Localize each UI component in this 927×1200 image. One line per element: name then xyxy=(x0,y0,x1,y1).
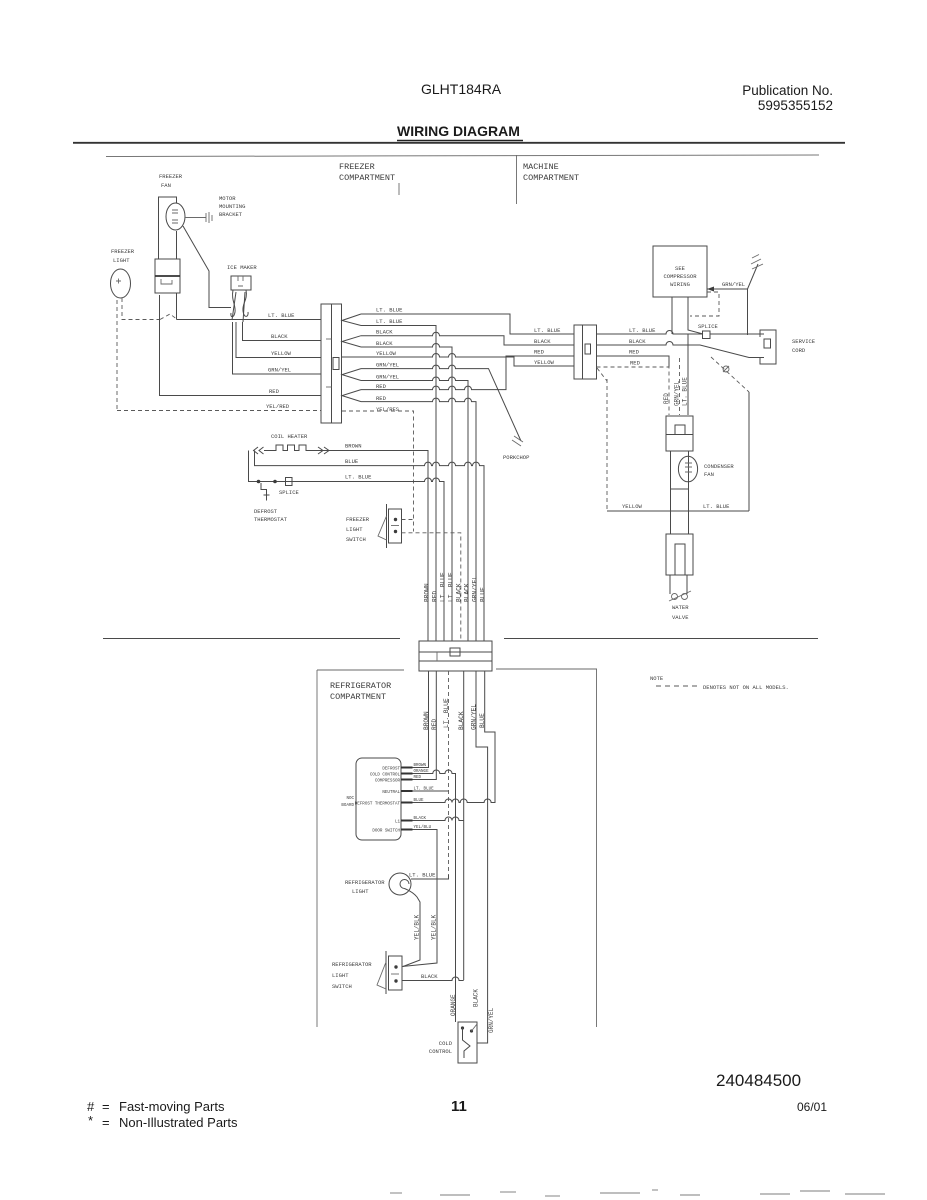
svg-text:BRACKET: BRACKET xyxy=(219,211,243,218)
svg-text:MACHINE: MACHINE xyxy=(523,162,559,172)
svg-text:BLACK: BLACK xyxy=(629,338,646,345)
svg-text:BLACK: BLACK xyxy=(534,338,551,345)
svg-text:COLD CONTROL: COLD CONTROL xyxy=(370,774,401,778)
svg-text:#: # xyxy=(87,1099,95,1114)
svg-text:COLD: COLD xyxy=(439,1040,453,1047)
svg-text:FREEZER: FREEZER xyxy=(111,248,135,255)
svg-text:BLUE: BLUE xyxy=(345,458,359,465)
svg-text:06/01: 06/01 xyxy=(797,1100,827,1114)
svg-text:WIRING DIAGRAM: WIRING DIAGRAM xyxy=(397,123,520,139)
svg-text:RED: RED xyxy=(414,776,422,780)
svg-text:REFRIGERATOR: REFRIGERATOR xyxy=(330,681,391,691)
svg-text:LT. BLUE: LT. BLUE xyxy=(376,318,403,325)
svg-text:LT. BLUE: LT. BLUE xyxy=(345,474,372,481)
svg-text:DOOR SWITCH: DOOR SWITCH xyxy=(372,830,400,834)
svg-text:BLACK: BLACK xyxy=(421,973,438,980)
svg-text:LT. BLUE: LT. BLUE xyxy=(409,872,436,879)
svg-text:RED: RED xyxy=(376,395,387,402)
svg-text:DENOTES NOT ON ALL MODELS.: DENOTES NOT ON ALL MODELS. xyxy=(703,684,789,691)
svg-text:FREEZER: FREEZER xyxy=(159,173,183,180)
svg-text:GRN/YEL: GRN/YEL xyxy=(488,1007,495,1033)
svg-text:YELLOW: YELLOW xyxy=(622,503,643,510)
svg-text:COIL HEATER: COIL HEATER xyxy=(271,433,308,440)
svg-text:ICE MAKER: ICE MAKER xyxy=(227,264,257,271)
svg-text:=: = xyxy=(102,1099,110,1114)
svg-text:GLHT184RA: GLHT184RA xyxy=(421,81,502,97)
svg-text:COMPARTMENT: COMPARTMENT xyxy=(523,173,579,183)
svg-text:LIGHT: LIGHT xyxy=(346,526,363,533)
svg-text:LT. BLUE: LT. BLUE xyxy=(703,503,730,510)
svg-text:=: = xyxy=(102,1115,110,1130)
svg-text:*: * xyxy=(88,1113,93,1128)
svg-text:DEFROST: DEFROST xyxy=(382,768,400,772)
svg-text:MOTOR: MOTOR xyxy=(219,195,236,202)
svg-text:VALVE: VALVE xyxy=(672,614,689,621)
svg-text:DEFROST: DEFROST xyxy=(254,508,278,515)
svg-text:BLACK: BLACK xyxy=(376,340,393,347)
svg-text:YELLOW: YELLOW xyxy=(376,350,397,357)
svg-text:YEL/BLK: YEL/BLK xyxy=(431,914,438,940)
svg-text:240484500: 240484500 xyxy=(716,1071,801,1090)
svg-text:RED: RED xyxy=(534,349,545,356)
svg-text:SWITCH: SWITCH xyxy=(346,536,366,543)
svg-text:BLACK: BLACK xyxy=(271,333,288,340)
svg-text:11: 11 xyxy=(451,1098,467,1115)
svg-text:RED: RED xyxy=(269,388,280,395)
svg-text:SEE: SEE xyxy=(675,265,686,272)
svg-text:FREEZER: FREEZER xyxy=(339,162,375,172)
svg-text:BLUE: BLUE xyxy=(479,587,486,602)
svg-text:SPLICE: SPLICE xyxy=(698,323,719,330)
svg-text:CONTROL: CONTROL xyxy=(429,1048,452,1055)
svg-text:LT. BLUE: LT. BLUE xyxy=(534,327,561,334)
svg-text:CONDENSER: CONDENSER xyxy=(704,463,734,470)
svg-text:5995355152: 5995355152 xyxy=(758,98,833,113)
svg-text:LT. BLUE: LT. BLUE xyxy=(376,307,403,314)
svg-text:NOTE: NOTE xyxy=(650,675,664,682)
svg-text:COMPRESSOR: COMPRESSOR xyxy=(663,273,697,280)
svg-text:Fast-moving Parts: Fast-moving Parts xyxy=(119,1099,225,1114)
svg-text:LT. BLUE: LT. BLUE xyxy=(629,327,656,334)
svg-text:FAN: FAN xyxy=(161,182,171,189)
svg-text:YELLOW: YELLOW xyxy=(534,359,555,366)
svg-text:RED: RED xyxy=(630,360,641,367)
svg-text:SERVICE: SERVICE xyxy=(792,338,816,345)
svg-text:BROWN: BROWN xyxy=(414,764,427,768)
svg-text:RED: RED xyxy=(629,349,640,356)
svg-text:CORD: CORD xyxy=(792,347,806,354)
svg-text:GRN/YEL: GRN/YEL xyxy=(471,576,478,602)
svg-text:RED: RED xyxy=(376,383,387,390)
svg-text:COMPRESSOR: COMPRESSOR xyxy=(375,780,401,784)
svg-text:GRN/YEL: GRN/YEL xyxy=(376,362,399,369)
svg-text:COMPARTMENT: COMPARTMENT xyxy=(339,173,395,183)
svg-text:BLACK: BLACK xyxy=(473,989,480,1007)
svg-text:BLACK: BLACK xyxy=(463,583,470,602)
svg-text:COMPARTMENT: COMPARTMENT xyxy=(330,692,386,702)
svg-text:LT. BLUE: LT. BLUE xyxy=(268,312,295,319)
svg-text:GRN/YEL: GRN/YEL xyxy=(674,380,681,406)
svg-text:RED: RED xyxy=(431,591,438,602)
svg-text:BLACK: BLACK xyxy=(455,583,462,602)
svg-text:BLACK: BLACK xyxy=(376,329,393,336)
svg-text:FREEZER: FREEZER xyxy=(346,516,370,523)
svg-text:YEL/RES: YEL/RES xyxy=(376,406,400,413)
svg-text:NEUTRAL: NEUTRAL xyxy=(382,791,400,795)
svg-text:LT. BLUE: LT. BLUE xyxy=(443,698,450,728)
svg-text:Non-Illustrated Parts: Non-Illustrated Parts xyxy=(119,1115,238,1130)
svg-text:Publication No.: Publication No. xyxy=(742,83,833,98)
svg-text:WIRING: WIRING xyxy=(670,281,690,288)
svg-text:PORKCHOP: PORKCHOP xyxy=(503,454,529,461)
svg-text:THERMOSTAT: THERMOSTAT xyxy=(254,516,288,523)
svg-text:RED: RED xyxy=(663,393,670,404)
svg-text:MOUNTING: MOUNTING xyxy=(219,203,245,210)
svg-text:NOC: NOC xyxy=(346,797,354,801)
svg-text:REFRIGERATOR: REFRIGERATOR xyxy=(345,879,385,886)
svg-text:GRN/YEL: GRN/YEL xyxy=(376,374,399,381)
svg-text:LT. BLUE: LT. BLUE xyxy=(447,572,454,602)
svg-text:GRN/YEL: GRN/YEL xyxy=(268,367,291,374)
svg-text:DEFROST THERMOSTAT: DEFROST THERMOSTAT xyxy=(355,803,401,807)
svg-text:BROWN: BROWN xyxy=(423,583,430,602)
svg-text:REFRIGERATOR: REFRIGERATOR xyxy=(332,961,372,968)
svg-text:FAN: FAN xyxy=(704,471,714,478)
svg-text:YEL/RED: YEL/RED xyxy=(266,403,290,410)
svg-text:SWITCH: SWITCH xyxy=(332,983,352,990)
svg-text:WATER: WATER xyxy=(672,604,689,611)
svg-text:LT. BLUE: LT. BLUE xyxy=(682,377,689,406)
svg-text:BROWN: BROWN xyxy=(345,443,362,450)
svg-text:LIGHT: LIGHT xyxy=(332,972,349,979)
svg-text:GRN/YEL: GRN/YEL xyxy=(722,281,745,288)
svg-text:LT. BLUE: LT. BLUE xyxy=(439,572,446,602)
svg-text:ORANGE: ORANGE xyxy=(450,994,457,1016)
svg-text:L1: L1 xyxy=(395,821,401,825)
svg-text:YELLOW: YELLOW xyxy=(271,350,292,357)
svg-text:SPLICE: SPLICE xyxy=(279,489,300,496)
svg-text:LIGHT: LIGHT xyxy=(113,257,130,264)
svg-text:LIGHT: LIGHT xyxy=(352,888,369,895)
svg-text:BOARD: BOARD xyxy=(341,804,354,808)
svg-text:YEL/BLK: YEL/BLK xyxy=(414,914,421,940)
